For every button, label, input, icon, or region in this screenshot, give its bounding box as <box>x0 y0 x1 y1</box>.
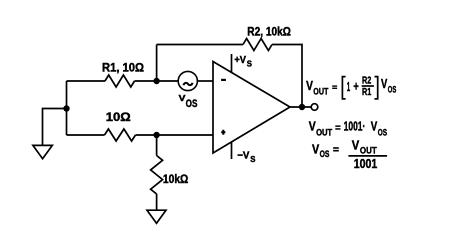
svg-text:10kΩ: 10kΩ <box>163 174 188 186</box>
resistor R1 <box>105 75 135 87</box>
svg-text:OUT: OUT <box>316 128 332 139</box>
svg-text:OS: OS <box>388 84 397 95</box>
ground bottom <box>147 210 166 223</box>
wire 10kΩ resistor to ground <box>156 194 158 210</box>
node left junction dot <box>63 105 69 111</box>
wire node B down to 10kΩ resistor <box>156 135 158 156</box>
svg-text:+V: +V <box>234 55 246 66</box>
equation 1: VOUT = [1 + R2/R1] VOS <box>306 75 396 99</box>
svg-text:S: S <box>250 155 255 164</box>
label +VS <box>234 55 252 69</box>
wire +VS supply stub <box>231 54 233 72</box>
svg-text:R1, 10Ω: R1, 10Ω <box>102 63 144 75</box>
svg-text:V: V <box>381 77 388 91</box>
wire bottom row: left vertical to 10Ω resistor <box>67 134 105 136</box>
wire -VS supply stub <box>231 142 233 159</box>
resistor 10kΩ (vertical) <box>151 156 163 195</box>
svg-text:OUT: OUT <box>313 87 328 98</box>
op-amp U1 <box>213 62 290 154</box>
resistor 10Ω (bottom) <box>105 129 136 141</box>
equation 2: VOUT = 1001·VOS <box>309 120 387 139</box>
wire 10Ω resistor to op-amp non-inverting input <box>136 134 214 136</box>
svg-text:+: + <box>353 79 358 93</box>
node B junction dot (non-inverting input node) <box>153 132 159 138</box>
svg-text:V: V <box>312 142 320 156</box>
svg-text:1001·: 1001· <box>344 120 366 134</box>
voltage source VOS <box>178 71 197 90</box>
terminal output open circle <box>311 104 318 111</box>
wire feedback vertical from node A up <box>156 45 158 82</box>
svg-text:−V: −V <box>237 150 250 161</box>
wire left ground stub <box>43 109 67 146</box>
svg-text:1001: 1001 <box>354 157 378 171</box>
node output junction dot <box>299 104 305 110</box>
wire op-amp output to terminal <box>290 106 312 108</box>
wire left vertical (input bus) <box>66 81 68 135</box>
label VOS <box>179 93 198 110</box>
resistor R2 <box>243 39 272 51</box>
svg-text:V: V <box>371 120 378 134</box>
svg-text:1: 1 <box>347 80 350 94</box>
equation 3: VOS = VOUT/1001 <box>312 138 387 171</box>
svg-text:OS: OS <box>378 128 387 139</box>
svg-text:10Ω: 10Ω <box>106 112 131 124</box>
node A junction dot (inverting input node) <box>153 78 159 84</box>
wire R2 to output corner and down <box>272 45 302 108</box>
wire top row: left vertical to R1 <box>67 80 106 82</box>
wire feedback top horizontal to R2 <box>157 44 243 46</box>
ground left <box>33 145 52 158</box>
svg-text:OS: OS <box>320 149 330 160</box>
svg-text:R1: R1 <box>362 87 372 98</box>
svg-text:OS: OS <box>186 98 198 110</box>
wire R1 to VOS source <box>135 80 179 82</box>
wire VOS to op-amp inverting input <box>197 80 213 82</box>
svg-text:S: S <box>247 60 252 69</box>
svg-text:R2, 10kΩ: R2, 10kΩ <box>247 27 290 39</box>
svg-text:R2: R2 <box>362 75 372 86</box>
label -VS <box>237 150 255 164</box>
svg-text:V: V <box>352 138 360 152</box>
